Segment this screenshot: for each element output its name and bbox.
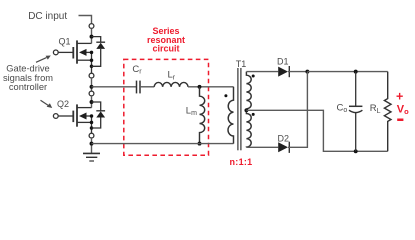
phase dot: secondary top	[252, 75, 255, 78]
wire: midpoint to Cr	[92, 86, 137, 88]
transformer core	[238, 68, 241, 150]
dashed box: series resonant circuit	[124, 59, 209, 155]
body diode of Q1	[92, 37, 106, 67]
wire: Q2 drain rail	[91, 96, 93, 108]
phase dot: secondary bottom	[252, 113, 255, 116]
svg-text:Lm: Lm	[186, 105, 197, 117]
svg-text:Vo: Vo	[397, 103, 409, 116]
node: Co bottom	[354, 149, 358, 153]
diode D1	[278, 66, 289, 77]
body diode of Q2	[92, 102, 106, 128]
ground	[83, 153, 100, 161]
wire: Lr to primary	[188, 86, 234, 88]
terminal circle: Q2 source	[89, 133, 94, 138]
svg-text:T1: T1	[236, 59, 247, 69]
label: Series resonant circuit	[147, 26, 185, 54]
wire: D1 to output node	[288, 71, 307, 73]
svg-text:controller: controller	[9, 82, 47, 92]
node: Q2 diode return	[90, 126, 94, 130]
svg-text:circuit: circuit	[152, 44, 179, 54]
node: Q1 diode return	[90, 65, 94, 69]
svg-text:DC input: DC input	[28, 11, 67, 22]
wire: secondary top to D1	[246, 71, 278, 73]
capacitor Co	[349, 72, 362, 152]
terminal circle: DC input node	[89, 24, 94, 29]
svg-text:Lr: Lr	[168, 70, 176, 82]
svg-text:D1: D1	[277, 56, 289, 66]
resistor RL	[384, 72, 391, 152]
svg-text:Co: Co	[337, 102, 348, 114]
node: Lm top	[198, 85, 202, 89]
node: Q1 source tie	[90, 58, 94, 62]
terminal circle: Q1 source	[89, 73, 94, 78]
diode D2	[278, 142, 289, 153]
node: rectifier output	[305, 70, 309, 74]
wire: ground return to primary	[92, 143, 234, 145]
node: ground junction	[90, 142, 94, 146]
wire: half-bridge midpoint rail	[91, 78, 93, 91]
svg-text:D2: D2	[278, 134, 290, 144]
terminal circle: Q1 gate	[53, 50, 58, 55]
svg-text:Q1: Q1	[59, 36, 71, 46]
wire: top rail to Co and RL	[307, 71, 387, 73]
wire: secondary bottom to D2	[246, 146, 278, 148]
node: Q2 body tie	[90, 114, 94, 118]
svg-text:n:1:1: n:1:1	[229, 157, 252, 167]
wire: DC input lead to left rail	[79, 16, 92, 24]
wire: rail circle to Q1 drain	[91, 28, 93, 43]
node: Co top	[354, 70, 358, 74]
phase dot: primary	[224, 94, 227, 97]
wire: D2 cathode up to output node	[288, 72, 307, 148]
transformer T1 secondary top winding	[246, 72, 251, 109]
transistor Q1	[58, 40, 91, 73]
transistor Q2	[58, 104, 91, 133]
label: gate-drive note	[3, 64, 53, 92]
node: Q2 drain junction	[90, 100, 94, 104]
capacitor Cr	[137, 81, 141, 94]
node: Q1 body tie	[90, 51, 94, 55]
node: half-bridge midpoint	[90, 85, 94, 89]
svg-text:Cr: Cr	[132, 64, 142, 76]
transformer T1 secondary bottom winding	[246, 112, 251, 148]
arrow: note to Q2 gate	[41, 100, 53, 108]
svg-text:+: +	[396, 90, 403, 104]
node: Q2 source tie	[90, 121, 94, 125]
wire: Q2 source to ground	[91, 138, 93, 153]
svg-text:RL: RL	[370, 103, 381, 115]
node: Q1 drain junction	[90, 35, 94, 39]
label: output minus	[397, 119, 403, 122]
wire: Cr to Lr	[140, 86, 154, 88]
wire: centre tap to bottom rail	[246, 110, 387, 151]
arrow: note to Q1 gate	[36, 56, 51, 63]
terminal circle: Q2 gate	[53, 114, 58, 119]
inductor Lr	[154, 82, 188, 86]
node: centre tap	[244, 108, 248, 112]
transformer T1 primary	[228, 87, 233, 144]
svg-text:Q2: Q2	[57, 99, 69, 109]
terminal circle: Q2 drain	[89, 91, 94, 96]
node: Lm bottom	[198, 142, 202, 146]
inductor Lm	[200, 87, 205, 144]
